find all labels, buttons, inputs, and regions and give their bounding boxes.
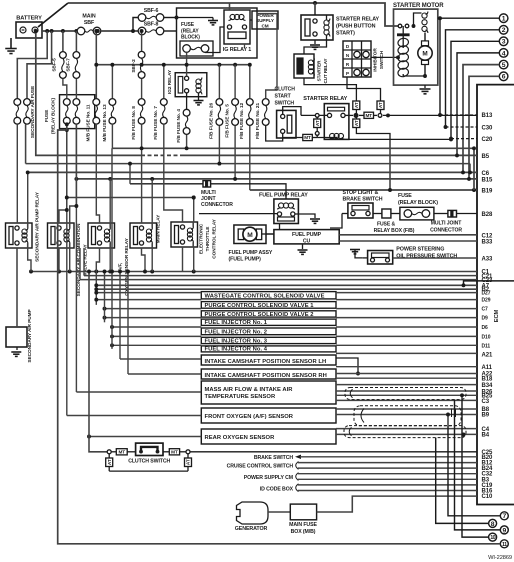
label STARTER RELAY (PUSH BUTTON START) — [336, 17, 380, 37]
svg-text:BLOCK): BLOCK) — [181, 35, 200, 41]
svg-text:C10: C10 — [482, 494, 493, 500]
svg-text:MAIN RELAY: MAIN RELAY — [156, 214, 162, 243]
wire B19 — [250, 188, 477, 192]
svg-text:FUSE: FUSE — [44, 109, 50, 122]
multi joint connector — [130, 181, 211, 187]
fuse (relay block) F1 — [180, 41, 213, 65]
svg-text:TEMPERATURE SENSOR: TEMPERATURE SENSOR — [205, 394, 276, 400]
label STARTER MOTOR — [393, 3, 444, 9]
svg-text:FUSE &: FUSE & — [377, 222, 396, 228]
wire id code box — [298, 485, 477, 491]
node fuse block input — [175, 16, 179, 20]
wire B8 — [336, 408, 477, 410]
device MASS AIR FLOW & INTAKE AIR TEMPERATURE SENSOR — [201, 381, 336, 404]
node B26 — [482, 389, 493, 395]
wire LH feed — [118, 270, 201, 359]
wire C23 — [80, 248, 477, 280]
svg-text:STARTER RELAY: STARTER RELAY — [303, 96, 347, 102]
svg-text:M/B FUSE No. 13: M/B FUSE No. 13 — [102, 104, 108, 142]
svg-text:B19: B19 — [482, 189, 493, 195]
svg-text:IG2 RELAY: IG2 RELAY — [167, 69, 173, 94]
node A7 — [482, 283, 490, 289]
node C10 — [482, 494, 493, 500]
wire stop light left — [330, 214, 348, 229]
wire F/B 21 feed — [257, 14, 277, 99]
wire bus to starter relay PB — [314, 3, 316, 15]
node B5 — [482, 154, 490, 160]
svg-text:(PUSH BUTTON: (PUSH BUTTON — [336, 24, 376, 30]
svg-text:MT: MT — [118, 450, 125, 455]
label F/B FUSE No. 7 — [153, 106, 159, 140]
node circled 9 — [500, 526, 508, 534]
node circled 3 — [499, 37, 508, 46]
device INTAKE CAMSHAFT POSITION SENSOR RH — [201, 369, 336, 379]
svg-text:M: M — [422, 51, 427, 58]
fuse F/B FUSE No. 4 — [183, 93, 190, 134]
svg-text:3: 3 — [502, 39, 506, 46]
svg-text:START: START — [275, 93, 292, 99]
svg-text:D29: D29 — [482, 298, 491, 304]
wire to node 9 — [455, 400, 501, 530]
svg-text:AT: AT — [186, 459, 191, 465]
svg-text:JOINT: JOINT — [201, 196, 216, 202]
label M/B FUSE No. 11 — [86, 104, 92, 141]
wire FUEL INJECTOR No. 2 to ECM — [336, 326, 477, 328]
svg-text:AT: AT — [315, 120, 320, 126]
label STARTER RELAY — [303, 96, 347, 102]
relay STARTER CUT RELAY — [294, 54, 314, 78]
svg-text:B18: B18 — [482, 377, 493, 383]
node B19 — [482, 189, 493, 195]
ground (starter relay PB) — [310, 45, 320, 49]
node main bus junctions — [45, 29, 78, 33]
wire PURGE CONTROL SOLENOID VALVE 2 feed — [103, 307, 202, 311]
svg-text:STARTER MOTOR: STARTER MOTOR — [393, 3, 444, 9]
wire FUEL INJECTOR No. 3 feed — [110, 334, 201, 338]
relay SECONDARY AIR COMBINATION VALVE RELAY — [48, 223, 75, 248]
tag MT left — [283, 134, 318, 140]
svg-text:D9: D9 — [482, 316, 489, 322]
svg-text:B34: B34 — [482, 383, 493, 389]
wire RH out A22 — [336, 373, 477, 375]
svg-text:MT: MT — [365, 113, 372, 118]
svg-text:(RELAY BLOCK): (RELAY BLOCK) — [398, 200, 438, 206]
node A11 — [482, 365, 493, 371]
node B24 — [482, 466, 493, 472]
wire R1 coil up — [26, 170, 30, 223]
wire PURGE CONTROL SOLENOID VALVE 1 feed — [94, 298, 201, 302]
fuse M/B FUSE No. 11 — [93, 29, 100, 124]
motor M armature — [418, 33, 432, 76]
svg-text:SBF-5: SBF-5 — [52, 58, 58, 72]
fuse SECONDARY AIR FUSE A — [14, 99, 21, 125]
svg-text:INTAKE CAMSHAFT POSITION SENSO: INTAKE CAMSHAFT POSITION SENSOR LH — [205, 359, 327, 365]
device FUEL PUMP ASSY — [234, 225, 274, 244]
fuse F/B left B — [73, 79, 80, 124]
wire to node 3 — [451, 41, 499, 138]
wire starter relay PB coil down — [304, 40, 327, 54]
wire B15 — [74, 177, 477, 181]
svg-text:MULTI: MULTI — [201, 190, 216, 196]
wire brake switch — [295, 455, 477, 459]
svg-text:D27: D27 — [482, 291, 491, 297]
fuse SBF-5 — [60, 31, 67, 78]
fuse F/B left A — [63, 79, 70, 124]
node B13 — [482, 113, 493, 119]
svg-text:B33: B33 — [482, 240, 493, 246]
wire B33 — [339, 240, 477, 242]
svg-text:B15: B15 — [482, 177, 493, 183]
wire node1 drop to B13 — [438, 16, 442, 115]
svg-text:SBF-8: SBF-8 — [144, 21, 159, 27]
fuse F/B FUSE No. 8 — [138, 99, 145, 125]
svg-text:SBF: SBF — [84, 20, 95, 26]
wire top bus — [68, 3, 399, 26]
fuse F/B FUSE No. 7 — [160, 63, 167, 124]
svg-text:SECONDARY AIR PUMP RELAY: SECONDARY AIR PUMP RELAY — [35, 191, 41, 262]
label ECM — [494, 309, 500, 322]
device FUEL INJECTOR No. 4 — [201, 346, 336, 353]
wire fuel pump relay to cu — [279, 224, 281, 230]
wire RH feed — [126, 270, 201, 374]
svg-text:4: 4 — [502, 50, 506, 57]
ground (IG2 relay) — [194, 101, 204, 105]
svg-text:POWER STEERING: POWER STEERING — [396, 247, 444, 253]
svg-text:9: 9 — [502, 527, 506, 534]
svg-text:8: 8 — [491, 521, 495, 528]
wire battery negative to ground — [10, 38, 12, 48]
wire No5 drop — [233, 126, 237, 181]
svg-text:M/B FUSE No. 11: M/B FUSE No. 11 — [86, 104, 92, 141]
wire mjc tee — [129, 164, 131, 184]
label ELECTRONIC THROTTLE CONTROL RELAY — [199, 218, 218, 258]
device WASTEGATE CONTROL SOLENOID VALVE — [201, 292, 336, 300]
wire C3 — [336, 399, 477, 401]
svg-text:C7: C7 — [482, 307, 489, 313]
svg-text:PURGE CONTROL SOLENOID VALVE 1: PURGE CONTROL SOLENOID VALVE 1 — [205, 303, 315, 309]
svg-text:SBF-7: SBF-7 — [66, 58, 72, 72]
wire B25 — [336, 394, 477, 396]
wire bus y65 — [94, 63, 249, 67]
starter motor terminals — [398, 13, 421, 28]
fuse F/B FUSE No. 12 — [246, 63, 253, 126]
label FUEL PUMP ASSY — [229, 250, 273, 263]
node starter motor ground — [423, 74, 427, 78]
wire relay1 to pump — [16, 248, 18, 327]
node B20 — [482, 455, 493, 461]
node B34 — [482, 383, 493, 389]
box FUSE (RELAY BLOCK) left — [60, 95, 95, 129]
svg-text:OXYGEN SENSOR RELAY: OXYGEN SENSOR RELAY — [124, 237, 130, 295]
label F/B FUSE No. 5 — [224, 104, 230, 138]
multi joint connector right — [434, 210, 457, 217]
label POWER STEERING OIL PRESSURE SWITCH — [396, 247, 457, 260]
svg-text:MAIN: MAIN — [82, 14, 95, 20]
svg-text:RELAY BOX (F/B): RELAY BOX (F/B) — [374, 228, 415, 234]
node C1 — [482, 270, 490, 276]
fuse SBF-7 — [73, 31, 80, 78]
wire C6 — [28, 170, 477, 174]
label SECONDARY AIR PUMP RELAY — [35, 191, 41, 262]
svg-text:AT: AT — [354, 102, 359, 108]
svg-text:FUEL PUMP: FUEL PUMP — [292, 232, 322, 238]
node C21 — [482, 274, 493, 280]
wire No26 drop — [218, 126, 220, 164]
tag AT clutch right — [185, 454, 192, 471]
ground (secondary air pump) — [11, 352, 21, 356]
device FUEL INJECTOR No. 3 — [201, 337, 336, 344]
svg-text:FUEL INJECTOR No. 1: FUEL INJECTOR No. 1 — [205, 320, 268, 326]
wire main bus from battery — [42, 30, 77, 32]
fuse F/B FUSE No. 5 — [232, 65, 239, 126]
svg-text:SBF-6: SBF-6 — [144, 8, 159, 14]
tag AT upper 2 — [377, 101, 384, 113]
node bus to starter relay PB — [313, 1, 317, 5]
label SBF-2 — [131, 59, 137, 73]
device FUEL INJECTOR No. 1 — [201, 319, 336, 326]
wire to ground in block — [177, 18, 214, 21]
wire relay supply bus — [67, 196, 196, 200]
wire starter relay right pin — [345, 114, 364, 118]
label F/B FUSE No. 4 — [176, 109, 182, 143]
shield (mass air flow) — [345, 388, 466, 400]
label MULTI JOINT CONNECTOR (left) — [201, 190, 233, 208]
wire A33 — [393, 257, 477, 259]
label FUSE (RELAY BLOCK) left — [44, 97, 57, 134]
node C19 — [482, 483, 493, 489]
device PURGE CONTROL SOLENOID VALVE 2 — [201, 311, 336, 318]
node circled 2 — [499, 26, 508, 35]
node B15 — [482, 177, 493, 183]
wire WASTEGATE CONTROL SOLENOID VALVE feed — [94, 291, 201, 295]
fuse M/B FUSE No. 13 — [109, 65, 116, 124]
svg-text:F/B FUSE No. 5: F/B FUSE No. 5 — [224, 104, 230, 138]
label FUEL PUMP RELAY — [259, 192, 308, 198]
wire fuel pump relay to ground — [295, 214, 315, 218]
svg-text:SBF-2: SBF-2 — [131, 59, 137, 73]
wire bus C1 — [29, 270, 477, 274]
wire B2 — [94, 287, 477, 291]
wire FUEL INJECTOR No. 4 feed — [110, 343, 201, 347]
svg-text:IG RELAY 1: IG RELAY 1 — [223, 47, 251, 53]
fuse F/B FUSE No. 26 — [216, 65, 223, 126]
svg-text:AT: AT — [378, 102, 383, 108]
label CLUTCH START SWITCH — [275, 86, 296, 106]
wire R4 coil up — [151, 179, 153, 223]
svg-text:B13: B13 — [482, 113, 493, 119]
wire to node 4 — [457, 53, 499, 155]
wire stack bus 112 — [110, 148, 114, 349]
node C25 — [482, 450, 493, 456]
wire B13 — [438, 113, 477, 117]
svg-text:FUSE: FUSE — [398, 193, 412, 199]
node D6 — [482, 325, 489, 331]
node C12 — [482, 233, 493, 239]
wire A11 — [336, 366, 477, 368]
wire power supply cm — [298, 474, 477, 480]
svg-text:5: 5 — [502, 62, 506, 69]
wire A21 — [336, 352, 477, 354]
wire C4 — [336, 428, 477, 430]
node C3 — [482, 399, 490, 405]
label F/B FUSE No. 26 — [209, 103, 215, 140]
wire PURGE CONTROL SOLENOID VALVE 1 to ECM — [336, 299, 477, 301]
wire bus drop to sec air fuses — [17, 31, 51, 98]
relay STARTER RELAY — [324, 104, 349, 140]
switch STOP LIGHT & BRAKE SWITCH — [348, 203, 373, 218]
svg-text:F/B FUSE No. 8: F/B FUSE No. 8 — [131, 106, 137, 140]
node circled 7 — [500, 512, 508, 520]
relay ELECTRONIC THROTTLE CONTROL RELAY — [171, 222, 198, 247]
fuse SBF-6 — [133, 8, 177, 31]
svg-text:FRONT OXYGEN (A/F) SENSOR: FRONT OXYGEN (A/F) SENSOR — [205, 414, 294, 420]
label SECONDARY AIR FUSE — [30, 85, 36, 138]
svg-text:7: 7 — [502, 513, 506, 520]
node A22 — [482, 371, 493, 377]
svg-text:P: P — [346, 71, 349, 76]
wire C12 — [339, 234, 477, 236]
svg-text:B9: B9 — [482, 413, 490, 419]
ground (relay block) — [208, 21, 218, 25]
device PURGE CONTROL SOLENOID VALVE 1 — [201, 302, 336, 309]
svg-text:STARTER: STARTER — [317, 60, 322, 81]
relay IG RELAY 1 — [223, 3, 251, 53]
svg-text:FUEL PUMP RELAY: FUEL PUMP RELAY — [259, 192, 308, 198]
wire R3 down — [96, 248, 110, 305]
svg-text:CONNECTOR: CONNECTOR — [201, 202, 233, 208]
label MULTI JOINT CONNECTOR (right) — [430, 221, 462, 234]
node B33 — [482, 240, 493, 246]
label M/B FUSE No. 13 — [102, 104, 108, 142]
wire FUEL INJECTOR No. 3 to ECM — [336, 335, 477, 337]
wire R5 contact up — [164, 124, 183, 222]
node circled 11 — [500, 540, 508, 548]
ground (starter motor) — [420, 89, 431, 94]
relay SECONDARY AIR PUMP RELAY — [6, 223, 33, 248]
node C30 — [482, 125, 493, 131]
wire starter motor to ground — [424, 85, 426, 88]
svg-text:B5: B5 — [482, 154, 490, 160]
wire R1 coil down — [28, 248, 31, 272]
label INHIBITOR SWITCH — [373, 48, 386, 72]
clutch left terminal — [107, 450, 116, 454]
tag AT upper 1 — [353, 101, 360, 117]
svg-text:FUEL INJECTOR No. 4: FUEL INJECTOR No. 4 — [205, 347, 268, 353]
wire block fuse to IG relay — [205, 27, 224, 53]
coil starter motor field — [422, 12, 428, 34]
wire clutch AT bypass — [109, 470, 188, 472]
device REAR OXYGEN SENSOR — [201, 429, 336, 444]
switch INHIBITOR SWITCH — [343, 41, 371, 77]
label SBF-7 — [66, 58, 72, 72]
wire inhibitor to starter motor solenoid — [371, 56, 398, 58]
node circled 10 — [489, 533, 497, 541]
node C20 — [482, 137, 493, 143]
fuse SBF-8 — [138, 21, 176, 35]
wire starter relay row right — [378, 113, 477, 117]
label STARTER CUT RELAY — [317, 58, 329, 83]
svg-text:BATTERY: BATTERY — [16, 16, 42, 22]
node B8 — [482, 407, 490, 413]
ground (battery) — [5, 49, 17, 54]
label CLUTCH SWITCH — [128, 459, 170, 465]
label A/F OXYGEN SENSOR RELAY — [118, 237, 131, 295]
wire A7 — [94, 281, 514, 287]
node B12 — [482, 461, 493, 467]
svg-text:CUT RELAY: CUT RELAY — [323, 58, 328, 83]
label F/B FUSE No. 12 — [239, 103, 245, 140]
label GENERATOR — [235, 526, 268, 532]
wire R5 coil up — [192, 196, 196, 222]
svg-text:START): START) — [336, 31, 355, 37]
node C7 — [482, 307, 489, 313]
wire relay block fuse A down — [66, 124, 68, 197]
fuse/relay block container — [177, 8, 258, 58]
svg-text:MT: MT — [171, 450, 178, 455]
wire B5 — [34, 29, 477, 157]
svg-text:B28: B28 — [482, 212, 493, 218]
wire to node 7 — [448, 426, 500, 516]
wire to node 11 — [58, 122, 501, 543]
box FUSE & RELAY BOX (F/B) — [373, 209, 391, 218]
label F/B FUSE No. 21 — [255, 103, 261, 140]
fuse (relay block) right — [391, 207, 434, 220]
wire diagonal bus to top — [38, 3, 68, 27]
svg-text:BRAKE SWITCH: BRAKE SWITCH — [343, 197, 383, 203]
wire upper cross line — [112, 146, 476, 190]
svg-text:CLUTCH: CLUTCH — [275, 86, 296, 92]
device INTAKE CAMSHAFT POSITION SENSOR LH — [201, 355, 336, 365]
svg-text:MAIN FUSE: MAIN FUSE — [289, 522, 317, 528]
label FUSE & RELAY BOX (F/B) — [374, 222, 415, 235]
label F/B FUSE No. 8 — [131, 106, 137, 140]
wire R4 down — [142, 248, 153, 273]
svg-text:FUEL INJECTOR No. 3: FUEL INJECTOR No. 3 — [205, 338, 268, 344]
svg-text:WASTEGATE CONTROL SOLENOID VAL: WASTEGATE CONTROL SOLENOID VALVE — [205, 294, 325, 300]
svg-text:SWITCH: SWITCH — [275, 100, 295, 106]
node circled 4 — [499, 49, 508, 58]
wire R4 contact up — [140, 124, 144, 223]
node B28 — [482, 212, 493, 218]
svg-text:C12: C12 — [482, 233, 493, 239]
battery — [16, 16, 42, 39]
svg-text:REAR OXYGEN SENSOR: REAR OXYGEN SENSOR — [205, 435, 276, 441]
svg-text:(RELAY: (RELAY — [181, 28, 199, 34]
ground (power steering) — [350, 249, 362, 258]
svg-text:STARTER RELAY: STARTER RELAY — [336, 17, 380, 23]
wire starter relay coil output — [349, 138, 451, 140]
svg-text:FUEL INJECTOR No. 2: FUEL INJECTOR No. 2 — [205, 330, 268, 336]
box FUEL PUMP CU — [274, 230, 339, 245]
tag AT left — [314, 117, 321, 137]
wire WASTEGATE CONTROL SOLENOID VALVE to ECM — [336, 292, 477, 294]
label ID CODE BOX — [260, 484, 299, 493]
svg-text:1: 1 — [502, 16, 506, 23]
svg-text:CRUISE CONTROL SWITCH: CRUISE CONTROL SWITCH — [227, 464, 294, 470]
svg-text:CU: CU — [303, 238, 311, 244]
svg-text:CONTROL RELAY: CONTROL RELAY — [212, 218, 218, 258]
svg-text:6: 6 — [502, 74, 506, 81]
wire starter cut relay down — [304, 78, 356, 101]
wire cruise control — [298, 463, 477, 469]
label FUSE (RELAY BLOCK) — [181, 22, 200, 40]
wire FUEL INJECTOR No. 4 to ECM — [336, 344, 477, 346]
relay STARTER RELAY (PUSH BUTTON START) — [301, 15, 333, 40]
wire FUEL INJECTOR No. 1 to ECM — [336, 317, 477, 319]
svg-text:ECM: ECM — [494, 309, 500, 322]
wire to node 10 — [462, 400, 489, 538]
wire IG relay to power supply cm — [250, 19, 252, 21]
